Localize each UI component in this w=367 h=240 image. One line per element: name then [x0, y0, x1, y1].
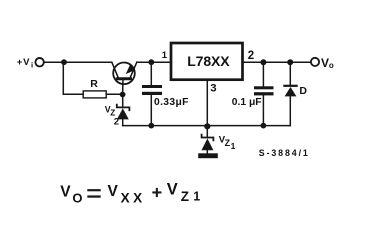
wire transistor emitter to node C / pin1: [137, 61, 170, 63]
svg-text:2: 2: [114, 116, 119, 127]
svg-text:1: 1: [162, 50, 168, 61]
wire pin2 to Vo: [244, 61, 310, 63]
formula Vo = Vxx + Vz1: [60, 181, 200, 206]
diode D: [284, 62, 296, 125]
svg-text:L78XX: L78XX: [187, 53, 230, 69]
wire to resistor R: [63, 93, 83, 95]
zener VZ2: [117, 95, 130, 126]
ground: [198, 153, 218, 158]
node B: [120, 92, 126, 98]
svg-text:Z: Z: [181, 189, 189, 204]
op-amp U1 L78XX box: [171, 43, 243, 80]
wire Vi to node A: [44, 61, 63, 63]
svg-text:0.1 μF: 0.1 μF: [232, 97, 262, 108]
wire node A down: [62, 62, 64, 94]
label Vo: [321, 56, 334, 70]
svg-text:0.33μF: 0.33μF: [154, 97, 189, 108]
label VZ1: [219, 135, 236, 151]
capacitor C2 0.1uF: [254, 62, 274, 125]
zener VZ1: [202, 127, 214, 154]
svg-text:1: 1: [231, 141, 236, 151]
wire resistor to node B: [107, 93, 123, 95]
svg-text:S-3884/1: S-3884/1: [259, 148, 310, 158]
svg-text:X: X: [133, 190, 142, 205]
terminal Vo: [311, 58, 319, 66]
svg-text:R: R: [90, 78, 98, 90]
resistor R: [83, 91, 106, 98]
label VZ2: [105, 105, 119, 128]
wire node A to transistor collector: [64, 61, 112, 63]
svg-text:+V: +V: [17, 57, 30, 68]
svg-text:o: o: [329, 61, 334, 70]
node E1 on rail: [261, 123, 267, 129]
capacitor C1 0.33uF: [142, 62, 162, 125]
svg-text:V: V: [321, 56, 329, 70]
svg-text:V: V: [167, 181, 178, 199]
transistor Q1: [112, 62, 137, 94]
svg-text:2: 2: [248, 50, 254, 62]
terminal +Vi: [35, 58, 43, 66]
svg-text:D: D: [299, 85, 307, 97]
svg-text:3: 3: [210, 83, 216, 95]
svg-text:i: i: [31, 60, 33, 69]
svg-text:V: V: [108, 183, 119, 200]
node D1 on rail: [148, 123, 154, 129]
node G: [204, 123, 210, 129]
wire pin3 down: [206, 81, 208, 127]
ground rail wire: [123, 125, 291, 127]
svg-text:V: V: [60, 183, 71, 200]
node F: [287, 59, 293, 65]
node E: [260, 59, 266, 65]
node C: [148, 59, 154, 65]
svg-text:1: 1: [193, 190, 200, 204]
node A: [61, 59, 67, 65]
label +Vi: [17, 57, 33, 70]
svg-text:X: X: [121, 190, 130, 205]
svg-text:O: O: [72, 190, 82, 205]
